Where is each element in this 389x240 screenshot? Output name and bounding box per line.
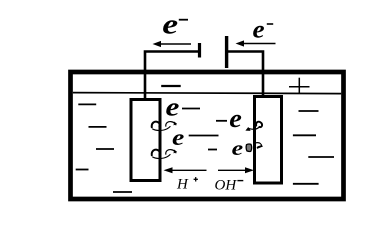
label e- right [253, 17, 274, 44]
ion dash left 1 [78, 103, 96, 105]
ion migration double arrow [164, 167, 255, 173]
curved arrow left 1 [152, 122, 177, 131]
svg-text:e: e [162, 10, 178, 41]
curved arrow right 2 [246, 143, 262, 152]
wire right (from battery to right electrode) [227, 52, 263, 97]
plus polarity sign [289, 78, 310, 93]
battery short plate (negative) [198, 43, 201, 58]
svg-text:e: e [229, 104, 242, 133]
tank (beaker) [71, 72, 344, 199]
electrode left (cathode) [131, 100, 160, 181]
curved arrow left 2 [152, 150, 177, 159]
battery tall plate (positive) [225, 36, 228, 68]
ion dash right 2 [293, 134, 316, 136]
ion dash right 1 [299, 110, 319, 112]
long ion dash after e2 [189, 135, 219, 137]
electrode right (anode) [255, 97, 282, 184]
ion dash right 3 [308, 156, 334, 158]
wire left (from battery to left electrode) [145, 52, 199, 99]
label e- left [162, 10, 188, 41]
svg-text:OH: OH [215, 177, 238, 193]
svg-text:e: e [166, 93, 180, 122]
svg-text:H: H [176, 176, 189, 192]
ion dash right 4 [293, 183, 319, 185]
ion dash before right e 1 [216, 120, 227, 122]
ion dash left 4 [76, 169, 89, 171]
liquid surface line [73, 93, 341, 94]
label OH- [215, 177, 244, 193]
label H+ [176, 176, 198, 192]
ion dash left 2 [89, 126, 107, 128]
electron flow arrow right [236, 40, 276, 46]
electron flow arrow left [153, 41, 192, 47]
curved arrow right 1 [245, 122, 262, 131]
ion dash after e1 [182, 108, 200, 110]
svg-text:e: e [232, 136, 244, 160]
minus polarity sign [161, 85, 181, 87]
ion dash before right e 2 [208, 149, 217, 151]
ion dash bottom left [113, 191, 132, 193]
svg-text:e: e [253, 17, 265, 44]
ion dash left 3 [96, 148, 114, 150]
svg-text:e: e [172, 125, 184, 150]
